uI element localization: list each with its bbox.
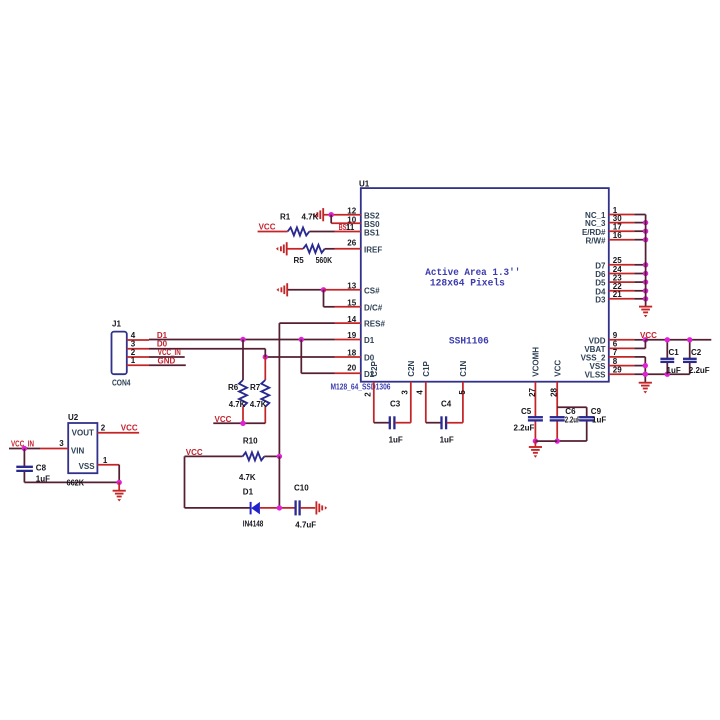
junction R/W# to NC bus xyxy=(643,237,648,242)
junction VLSS/C1 xyxy=(665,372,670,377)
svg-text:C1N: C1N xyxy=(459,360,468,376)
svg-text:23: 23 xyxy=(613,273,622,282)
junction diode/C10/RES# net xyxy=(277,505,282,510)
U1 pin 9 VDD wire xyxy=(589,331,646,345)
svg-text:4.7K: 4.7K xyxy=(250,400,267,409)
svg-text:IREF: IREF xyxy=(364,245,382,254)
svg-text:1uF: 1uF xyxy=(440,435,454,444)
svg-text:BS1: BS1 xyxy=(364,228,380,237)
svg-text:3: 3 xyxy=(59,439,64,448)
junction NC_3 to NC bus xyxy=(643,220,648,225)
wire C5 to C6 ground link xyxy=(535,440,557,442)
power label VCC at R1 xyxy=(258,222,288,231)
capacitor C10 4.7uF xyxy=(294,484,316,530)
svg-text:D5: D5 xyxy=(595,279,606,288)
U1 pin 8 VSS wire xyxy=(589,357,645,371)
svg-text:R10: R10 xyxy=(243,437,258,446)
wire VCC pullup rail xyxy=(213,422,265,424)
junction VSS bus xyxy=(643,363,648,368)
U1 pin 2 C2P wire xyxy=(364,360,379,422)
U1 pin 17 E/RD# wire xyxy=(582,223,646,237)
capacitor C1 1uF xyxy=(660,340,680,375)
svg-text:VCOMH: VCOMH xyxy=(532,347,541,377)
J1 pin 3 wire (net D0) xyxy=(127,340,265,357)
U1 pin 4 C1P wire xyxy=(416,360,431,422)
capacitor C5 2.2uF xyxy=(514,407,543,432)
svg-text:1uF: 1uF xyxy=(389,435,403,444)
svg-text:VOUT: VOUT xyxy=(72,429,94,438)
ground at C10 xyxy=(316,501,327,514)
junction C6/ground xyxy=(555,438,560,443)
capacitor C6 2.2uF xyxy=(550,407,581,424)
svg-text:18: 18 xyxy=(347,349,356,358)
wire NC/data ground bus vertical xyxy=(645,215,647,307)
U1 pin 5 C1N wire xyxy=(458,360,468,422)
U1 pin 19 D1 wire xyxy=(149,331,375,345)
svg-text:662K: 662K xyxy=(67,479,85,488)
U1 pin 28 VCC wire xyxy=(550,360,563,442)
svg-text:560K: 560K xyxy=(316,256,333,265)
svg-text:13: 13 xyxy=(347,282,356,291)
U1 pin 16 R/W# wire xyxy=(586,231,646,245)
ground at NC bus xyxy=(639,307,652,318)
junction D5 to NC bus xyxy=(643,279,648,284)
svg-text:D1: D1 xyxy=(364,336,375,345)
regulator U2 body xyxy=(68,423,97,473)
resistor R10 4.7K xyxy=(185,437,280,482)
U1 pin 30 NC_3 wire xyxy=(585,214,646,228)
junction CS#/DC# xyxy=(321,287,326,292)
U1 pin 13 CS# wire xyxy=(324,282,381,296)
svg-text:1uF: 1uF xyxy=(592,415,606,424)
svg-text:VSS: VSS xyxy=(79,462,96,471)
wire RES# vertical to R10 xyxy=(278,323,280,456)
resistor R7 4.7K xyxy=(250,357,269,423)
svg-text:C1: C1 xyxy=(669,348,680,357)
junction D3 to NC bus xyxy=(643,296,648,301)
svg-text:VSS_2: VSS_2 xyxy=(581,353,606,362)
svg-text:R6: R6 xyxy=(228,383,239,392)
svg-text:26: 26 xyxy=(347,239,356,248)
svg-text:R/W#: R/W# xyxy=(586,236,607,245)
svg-text:R5: R5 xyxy=(294,256,305,265)
ground at U2 xyxy=(113,491,126,502)
svg-text:1uF: 1uF xyxy=(667,366,681,375)
junction R6/VCC rail xyxy=(240,421,245,426)
wire VSS bus vertical to ground xyxy=(644,357,646,382)
U1 pin 20 D2 wire xyxy=(301,340,374,379)
svg-text:1: 1 xyxy=(131,356,136,365)
svg-text:2.2uF: 2.2uF xyxy=(689,366,710,375)
svg-text:C5: C5 xyxy=(521,407,532,416)
capacitor C3 1uF xyxy=(374,400,411,445)
svg-text:4.7K: 4.7K xyxy=(302,213,319,222)
ground at CS# xyxy=(276,283,287,296)
wire VCC rail right xyxy=(645,339,711,341)
junction VDD/VBAT to VCC rail xyxy=(643,337,648,342)
svg-text:19: 19 xyxy=(347,331,356,340)
svg-text:VCC: VCC xyxy=(121,424,138,433)
svg-text:1: 1 xyxy=(103,456,108,465)
svg-text:2: 2 xyxy=(364,392,373,397)
junction D4 to NC bus xyxy=(643,288,648,293)
capacitor C9 1uF branch xyxy=(557,407,606,441)
U1 pin 24 D6 wire xyxy=(595,265,645,279)
svg-text:D1: D1 xyxy=(243,487,254,496)
connector J1 CON4 body xyxy=(112,332,127,375)
junction E/RD# to NC bus xyxy=(643,229,648,234)
wire C8 to U2 ground xyxy=(24,481,119,483)
svg-text:C1P: C1P xyxy=(422,360,431,376)
U1 pin 25 D7 wire xyxy=(595,256,645,270)
svg-text:4.7K: 4.7K xyxy=(239,473,256,482)
junction U2 VSS/ground xyxy=(117,480,122,485)
svg-text:27: 27 xyxy=(528,387,537,396)
svg-text:VCC: VCC xyxy=(554,360,563,377)
svg-text:VCC: VCC xyxy=(640,331,657,340)
svg-text:D/C#: D/C# xyxy=(364,303,383,312)
svg-text:U2: U2 xyxy=(68,413,79,422)
junction VCC rail/C1 xyxy=(665,337,670,342)
svg-text:C2: C2 xyxy=(691,348,702,357)
U1 pin 18 D0 wire xyxy=(265,349,374,363)
wire diode row left xyxy=(185,507,251,509)
svg-text:RES#: RES# xyxy=(364,320,385,329)
svg-text:J1: J1 xyxy=(112,320,121,329)
resistor R5 560K xyxy=(288,245,333,265)
U1 pin 14 RES# wire xyxy=(279,315,385,329)
U1 pin 29 VLSS wire xyxy=(585,365,690,379)
U1 pin 6 VBAT wire xyxy=(584,340,645,354)
svg-text:25: 25 xyxy=(613,256,622,265)
svg-text:128x64 Pixels: 128x64 Pixels xyxy=(430,278,505,289)
svg-text:SSH1106: SSH1106 xyxy=(449,336,489,347)
svg-text:CS#: CS# xyxy=(364,286,380,295)
svg-text:4.7uF: 4.7uF xyxy=(295,520,316,529)
svg-text:28: 28 xyxy=(550,387,559,396)
U1 pin 3 C2N wire xyxy=(401,360,416,422)
svg-text:Active Area 1.3'': Active Area 1.3'' xyxy=(425,267,520,278)
U2 pin 3 wire (net VCC_IN) xyxy=(9,439,68,448)
svg-text:12: 12 xyxy=(347,206,356,215)
U1 pin 26 IREF wire xyxy=(325,239,383,255)
U2 pin 1 wire (VSS to ground) xyxy=(97,456,119,483)
junction D1/D2 branch xyxy=(299,337,304,342)
wire ground stem below U2 xyxy=(118,482,120,490)
svg-text:VIN: VIN xyxy=(71,447,85,456)
IC U1 SSH1106 body xyxy=(361,188,609,382)
U2 pin 2 wire (net VCC) xyxy=(97,423,139,433)
J1 pin 2 wire (net VCC_IN) xyxy=(127,348,185,357)
U1 pin 7 VSS_2 wire xyxy=(581,348,646,362)
svg-text:2: 2 xyxy=(101,423,106,432)
svg-text:U1: U1 xyxy=(359,179,370,188)
capacitor C8 1uF xyxy=(16,449,50,484)
svg-text:C2P: C2P xyxy=(370,360,379,376)
resistor R6 4.7K xyxy=(228,340,247,424)
junction R10/RES# net xyxy=(277,454,282,459)
svg-text:20: 20 xyxy=(347,364,356,373)
svg-text:11: 11 xyxy=(346,223,355,232)
svg-text:R1: R1 xyxy=(280,213,291,222)
capacitor C2 2.2uF xyxy=(683,340,710,375)
U1 pin 11 BS1 wire xyxy=(309,223,380,237)
junction VLSS bus xyxy=(643,372,648,377)
svg-text:15: 15 xyxy=(347,299,356,308)
junction D1/R6 xyxy=(240,337,245,342)
U1 pin 1 NC_1 wire xyxy=(585,206,646,220)
U1 pin 10 BS0 wire xyxy=(331,215,380,229)
svg-text:C4: C4 xyxy=(441,400,452,409)
U1 pin 27 VCOMH wire xyxy=(528,347,541,441)
ground right power xyxy=(639,383,652,394)
svg-text:C10: C10 xyxy=(294,484,309,493)
svg-text:C8: C8 xyxy=(36,464,47,473)
svg-text:3: 3 xyxy=(401,390,410,395)
wire ground to CS# junction xyxy=(288,289,324,291)
J1 pin 1 wire (net GND) xyxy=(127,356,186,365)
wire RES# net vertical R10 to diode xyxy=(278,456,280,508)
svg-text:VLSS: VLSS xyxy=(585,371,607,380)
svg-text:16: 16 xyxy=(613,231,622,240)
U1 pin 23 D5 wire xyxy=(595,273,645,287)
junction D0/R7 xyxy=(263,354,268,359)
svg-text:C2N: C2N xyxy=(407,360,416,376)
junction C5/ground xyxy=(533,438,538,443)
ground below C5/C6 xyxy=(529,447,542,458)
U1 pin 21 D3 wire xyxy=(595,290,645,304)
wire ground stem below C5 xyxy=(534,441,536,446)
svg-text:CON4: CON4 xyxy=(112,378,131,387)
ground at IREF/R5 xyxy=(276,242,287,255)
svg-text:D3: D3 xyxy=(595,295,606,304)
svg-text:29: 29 xyxy=(613,365,622,374)
svg-text:GND: GND xyxy=(158,356,176,365)
svg-text:2.2uF: 2.2uF xyxy=(565,415,581,424)
svg-text:4: 4 xyxy=(416,390,425,395)
svg-text:4.7K: 4.7K xyxy=(229,400,246,409)
junction D7 to NC bus xyxy=(643,262,648,267)
J1 pin 4 wire (net D1) xyxy=(127,331,149,340)
svg-text:5: 5 xyxy=(458,390,467,395)
svg-text:21: 21 xyxy=(613,290,622,299)
svg-text:VCC: VCC xyxy=(259,222,276,231)
svg-text:IN4148: IN4148 xyxy=(243,520,264,529)
svg-text:R7: R7 xyxy=(250,383,261,392)
diode D1 IN4148 xyxy=(243,487,295,528)
capacitor C4 1uF xyxy=(426,400,463,445)
U1 pin 15 D/C# wire xyxy=(324,290,383,313)
junction D6 to NC bus xyxy=(643,271,648,276)
junction VCC rail/C2 xyxy=(687,337,692,342)
U1 pin 12 BS2 wire xyxy=(324,206,380,220)
svg-text:C3: C3 xyxy=(390,400,401,409)
svg-text:14: 14 xyxy=(347,315,356,324)
junction VCC_IN/C8 xyxy=(22,446,27,451)
svg-text:M128_64_SSD1306: M128_64_SSD1306 xyxy=(331,383,391,392)
ground at pin 12 xyxy=(312,208,323,221)
svg-text:D7: D7 xyxy=(595,261,606,270)
U1 pin 22 D4 wire xyxy=(595,282,645,296)
resistor R1 4.7K xyxy=(280,213,319,236)
junction BS2/BS0/ground xyxy=(329,212,334,217)
svg-text:7: 7 xyxy=(613,348,618,357)
svg-text:2.2uF: 2.2uF xyxy=(514,423,535,432)
wire VCC loop left vertical xyxy=(184,456,186,508)
